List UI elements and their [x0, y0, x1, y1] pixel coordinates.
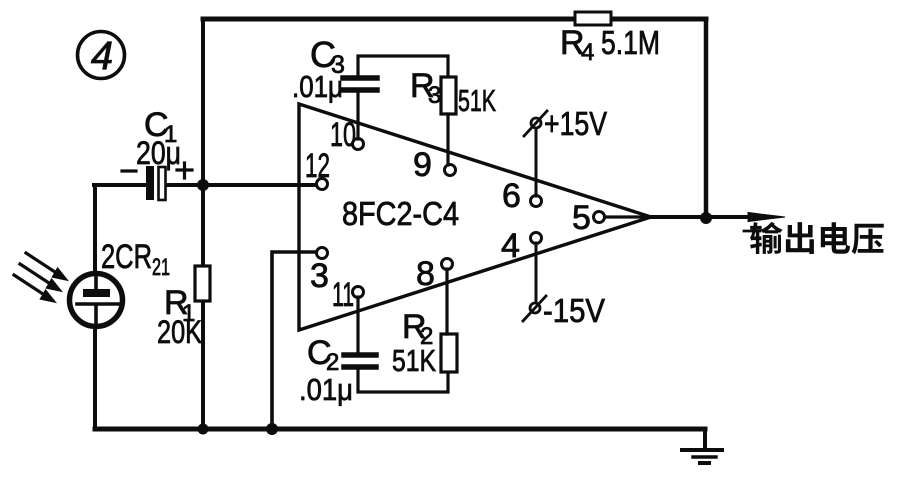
svg-text:3: 3 — [428, 82, 441, 109]
capacitor C1 — [122, 106, 192, 200]
pin 3 — [310, 248, 329, 296]
node A junction at C1 output — [197, 179, 209, 191]
wire bottom — [95, 427, 705, 432]
svg-text:.01μ: .01μ — [299, 372, 353, 407]
figure number circle 4 — [78, 32, 125, 79]
pin 4 — [501, 227, 542, 265]
capacitor C3 — [292, 34, 448, 139]
svg-text:4: 4 — [501, 227, 520, 265]
svg-text:8: 8 — [416, 255, 435, 293]
pin 5 — [572, 199, 648, 237]
wire output with arrow — [651, 213, 785, 222]
wire left vertical to photocell — [93, 185, 97, 429]
photocell 2CR21 — [70, 238, 171, 327]
svg-text:20μ: 20μ — [136, 135, 181, 171]
svg-text:10: 10 — [330, 116, 356, 154]
svg-text:+15V: +15V — [544, 105, 607, 142]
resistor R1 — [157, 266, 210, 350]
resistor R2 — [392, 269, 457, 378]
pin 12 — [305, 147, 330, 190]
svg-text:51K: 51K — [392, 343, 436, 378]
svg-text:8FC2-C4: 8FC2-C4 — [342, 195, 459, 232]
wire left vertical column — [201, 19, 205, 429]
pin 8 — [416, 255, 453, 293]
pin 9 — [413, 146, 456, 184]
svg-text:11: 11 — [332, 276, 354, 314]
svg-text:5: 5 — [572, 199, 591, 237]
-15V supply terminal — [523, 243, 605, 329]
svg-text:9: 9 — [413, 146, 432, 184]
junction node inverting branch bottom — [266, 423, 278, 435]
wire top feedback — [203, 17, 706, 22]
svg-text:-15V: -15V — [543, 292, 605, 329]
light arrow 3 — [14, 275, 55, 302]
svg-text:51K: 51K — [458, 83, 496, 118]
ground — [682, 429, 722, 463]
svg-text:.01μ: .01μ — [292, 69, 343, 104]
svg-text:12: 12 — [305, 147, 330, 185]
wire right vertical from R4 to output node — [704, 19, 709, 218]
light arrow 2 — [20, 264, 61, 291]
+15V supply terminal — [524, 105, 607, 196]
light arrow 1 — [26, 253, 67, 280]
node output junction — [700, 212, 712, 224]
svg-text:4: 4 — [91, 34, 113, 78]
svg-text:6: 6 — [502, 177, 521, 215]
svg-text:21: 21 — [152, 254, 170, 281]
pin 6 — [502, 177, 542, 215]
svg-text:20K: 20K — [157, 314, 202, 350]
pin 11 — [332, 276, 364, 314]
resistor R3 — [410, 67, 496, 165]
svg-text:2CR: 2CR — [101, 238, 152, 276]
svg-text:5.1M: 5.1M — [601, 24, 660, 61]
op-amp U1 triangle — [299, 104, 651, 330]
resistor R4 — [560, 12, 660, 66]
label output voltage — [744, 222, 884, 254]
pin 10 — [330, 116, 364, 154]
wire pin 3 branch — [272, 252, 317, 429]
capacitor C2 — [299, 297, 448, 407]
svg-text:3: 3 — [310, 257, 329, 295]
wire input horizontal — [94, 183, 317, 187]
junction node R1 bottom — [198, 424, 209, 435]
svg-text:4: 4 — [581, 39, 594, 66]
